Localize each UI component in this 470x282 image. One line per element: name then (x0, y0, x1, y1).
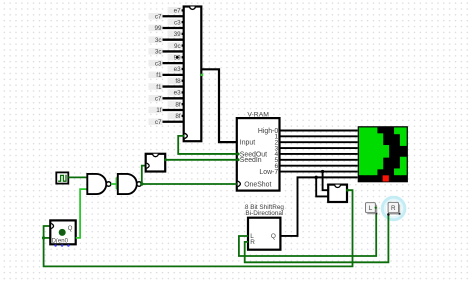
constant label f1 pin 11 (149, 72, 163, 80)
U5 output pin dot (346, 189, 349, 192)
wire constant c3 to U1 (163, 62, 184, 64)
wire V-RAM out 3 to display (280, 147, 358, 149)
svg-text:R: R (391, 205, 396, 212)
svg-text:1f: 1f (156, 107, 162, 114)
NAND gate G2 (118, 174, 142, 194)
wire V-RAM out 6 to display (280, 165, 358, 167)
svg-text:Low-7: Low-7 (259, 169, 278, 176)
wire constant c7 to U1 (163, 121, 184, 123)
wire constant 99 to U1 (182, 56, 184, 58)
wire V-RAM out 2 to display (280, 141, 358, 143)
green pin dot at SeedOut (237, 152, 240, 155)
svg-text:c7: c7 (155, 96, 162, 103)
junction node on row8 wire (315, 176, 318, 179)
wire constant 39 to U1 (182, 33, 184, 35)
wire branch to Reg0 D pin (44, 237, 51, 239)
svg-text:0: 0 (61, 230, 64, 236)
button L (366, 203, 378, 215)
svg-text:39: 39 (174, 31, 182, 38)
U4 output pin dot (164, 158, 167, 161)
ShiftReg U6 body (248, 218, 280, 250)
wire V-RAM out 4 to display (280, 153, 358, 155)
wire constant f1 to U1 (163, 74, 184, 76)
svg-text:c7: c7 (155, 13, 162, 20)
constant label 39 pin 4 (168, 31, 182, 39)
wire G2 out to V-RAM OneShot (141, 183, 237, 185)
svg-text:e7: e7 (174, 8, 182, 15)
svg-text:f8: f8 (175, 78, 181, 85)
small chip U5 (328, 185, 347, 202)
constant label e3 pin 14 (168, 89, 182, 97)
wire Low-7 junction to U5 input A (323, 172, 329, 191)
svg-text:e3: e3 (174, 66, 182, 73)
selection halo around button R (383, 198, 405, 220)
svg-text:Input: Input (240, 140, 255, 147)
constant label 8f pin 16 (168, 101, 182, 109)
V-RAM U2 body (237, 118, 280, 191)
constant label 9c pin 6 (168, 42, 182, 50)
svg-text:Q: Q (68, 226, 73, 232)
svg-text:(en0: (en0 (56, 239, 69, 245)
wire constant f1 to U1 (163, 85, 184, 87)
wire V-RAM out 0 to display (280, 130, 358, 132)
constant label e3 pin 10 (168, 66, 182, 74)
svg-text:3c: 3c (155, 37, 162, 44)
multiplexer U1 body (184, 7, 202, 142)
wire V-RAM out 1 to display (280, 135, 358, 137)
NAND gate G1 (87, 174, 111, 194)
wire constant 9c to U1 (182, 44, 184, 46)
svg-text:OneShot: OneShot (244, 181, 271, 188)
svg-text:f1: f1 (156, 72, 162, 79)
svg-text:99: 99 (154, 25, 162, 32)
constant label 3c pin 7 (149, 48, 163, 56)
svg-text:Bi-Directional: Bi-Directional (245, 210, 283, 217)
wire constant 99 to U1 (163, 27, 184, 29)
button R pin (387, 213, 390, 216)
wire constant 3c to U1 (163, 50, 184, 52)
wire constant c7 to U1 (163, 15, 184, 17)
wire ShiftReg Q to display row 8 (281, 177, 358, 236)
svg-text:c7: c7 (155, 119, 162, 126)
constant label c7 pin 19 (149, 118, 163, 126)
svg-text:c3: c3 (174, 19, 181, 26)
svg-text:R: R (250, 239, 255, 246)
small chip U4 (146, 154, 166, 172)
constant label c3 pin 9 (149, 60, 163, 67)
constant label c3 pin 2 (168, 19, 182, 27)
constant label 99 pin 3 (149, 25, 163, 33)
wire constant 8f to U1 (182, 103, 184, 105)
wire Reg0 Q to G1 input B (76, 189, 88, 238)
constant label f8 pin 12 (168, 77, 182, 85)
constant label e7 pin 0 (168, 7, 182, 15)
wire G1 out to G2 inputs (111, 177, 119, 189)
pin dot on constant 99 wire (176, 56, 179, 59)
svg-text:SeedIn: SeedIn (240, 157, 262, 164)
constant label 8f pin 18 (168, 113, 182, 121)
svg-text:e3: e3 (174, 90, 182, 97)
wire constant e7 to U1 (182, 9, 184, 11)
wire constant c7 to U1 (163, 97, 184, 99)
junction dot at Reg0 branch (42, 236, 45, 239)
wire constant 8f to U1 (182, 115, 184, 117)
wire constant c3 to U1 (182, 21, 184, 23)
wire V-RAM out 5 to display (280, 159, 358, 161)
wire U5 output feedback to Reg0 (44, 190, 353, 266)
register Reg0 (50, 220, 75, 244)
wire constant 1f to U1 (163, 109, 184, 111)
svg-text:Q: Q (271, 233, 276, 240)
wire V-RAM out 7 to display (280, 171, 358, 173)
button L pin (375, 207, 377, 209)
wire button L to ShiftReg L (239, 208, 376, 256)
constant label 3c pin 5 (149, 36, 163, 44)
wire CLK1 to G1 input A (68, 176, 87, 178)
wire constant f8 to U1 (182, 80, 184, 82)
wire U1 output to V-RAM Input (201, 69, 237, 142)
svg-text:c3: c3 (155, 60, 162, 67)
Reg0 unconnected pin dots (54, 244, 69, 246)
green pin dot at SeedIn (237, 158, 240, 161)
U1 unconnected output pin (green) (201, 74, 204, 76)
LED matrix display U3 (358, 126, 408, 182)
constant label f1 pin 13 (149, 83, 163, 91)
constant label c7 pin 15 (149, 95, 163, 103)
svg-text:L: L (369, 205, 373, 212)
button R (388, 202, 400, 214)
wire button R to ShiftReg R (245, 215, 389, 263)
wire branch G2 out to U4 clock (142, 166, 146, 184)
V-RAM OneShot clock wedge (238, 181, 241, 187)
clock CLK1 (56, 172, 68, 183)
wire constant 3c to U1 (163, 39, 184, 41)
wire U4 out to V-RAM SeedIn (165, 159, 237, 161)
wire constant e3 to U1 (182, 91, 184, 93)
svg-text:f1: f1 (156, 84, 162, 91)
junction node on Low-7 wire (321, 170, 324, 173)
svg-text:9c: 9c (174, 43, 181, 50)
constant label 1f pin 17 (149, 107, 163, 115)
U1 select input notch (185, 133, 188, 138)
svg-text:8f: 8f (175, 113, 181, 120)
junction dot V-RAM Input pin (236, 140, 239, 143)
wire constant e3 to U1 (182, 68, 184, 70)
junction dot at G2 output (140, 182, 143, 185)
svg-text:8f: 8f (175, 101, 181, 108)
wire V-RAM SeedOut to U1 select (178, 136, 237, 154)
constant label 99 pin 8 (168, 54, 182, 62)
svg-text:3c: 3c (155, 49, 162, 56)
wire row8 junction to U5 input B (316, 177, 328, 196)
constant label c7 pin 1 (149, 13, 163, 20)
